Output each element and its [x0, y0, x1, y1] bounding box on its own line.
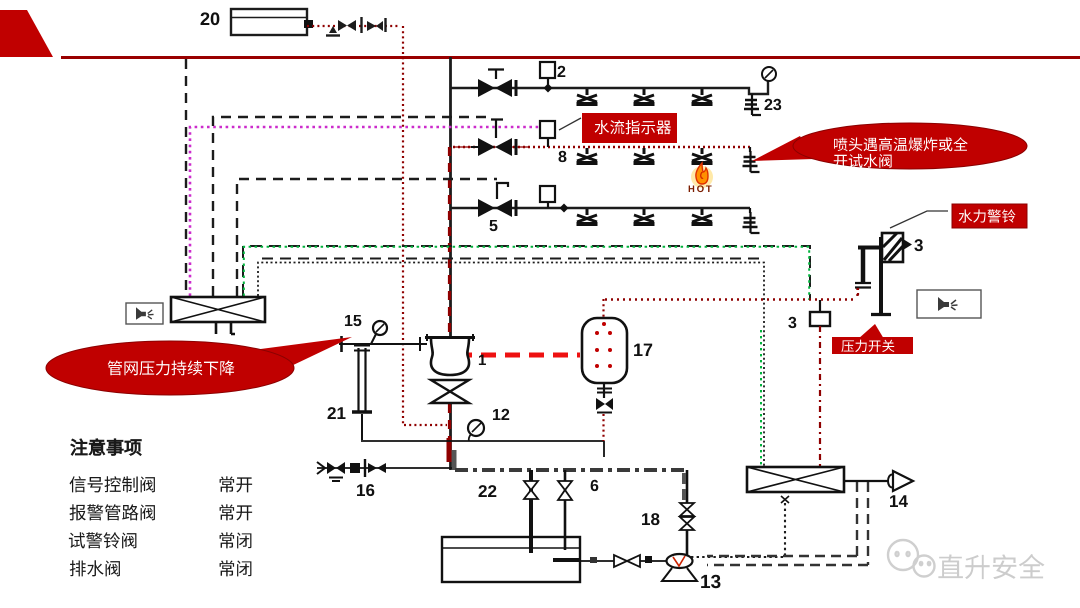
branch pipe row 1: [451, 81, 768, 94]
main drain header: [317, 468, 688, 470]
drain header line: [361, 441, 604, 457]
sprinklers row 3: [577, 209, 713, 224]
branch pipe row 3: [451, 207, 750, 209]
sprinklers row 1: [577, 89, 713, 104]
drain drop pipe 18: [642, 470, 694, 556]
end gauge 23: [762, 67, 776, 81]
check valve on feed: [338, 20, 356, 31]
speaker button right: [917, 290, 981, 318]
double dash drain pipe: [707, 482, 868, 565]
test valve row 3: [743, 208, 760, 233]
note row 4: [70, 560, 86, 576]
pressure switch: [788, 300, 830, 328]
water flow indicator row 3: [540, 186, 569, 213]
wire green dotted overlay: [760, 330, 762, 467]
horn line: [844, 480, 893, 482]
wire red dotted to bell: [605, 288, 858, 300]
watermark text: [938, 554, 963, 578]
callout bubble sprinkler burst: [752, 123, 1027, 169]
drain funnel 13: [662, 554, 720, 588]
gauge 12: [468, 409, 509, 441]
branch pipe row 2: [453, 146, 750, 148]
note row 2: [70, 504, 86, 520]
chamber bottom valve: [596, 383, 613, 441]
top band line: [61, 56, 1080, 59]
leader to bell label: [890, 211, 948, 228]
water motor bell 3: [882, 233, 923, 262]
note row 3: [69, 532, 85, 548]
pipe to alarm valve: [339, 336, 427, 352]
wire tank feed dotted: [307, 26, 447, 425]
label pressure switch: [832, 324, 913, 354]
water tank: [442, 537, 580, 582]
bell pole: [871, 237, 891, 315]
note row 1: [70, 476, 86, 492]
water flow indicator 2: [540, 62, 565, 93]
test valve row 2: [743, 147, 760, 172]
red flow dashes: [457, 353, 580, 358]
chamber top stub: [602, 299, 604, 318]
water flow indicator 8: [540, 121, 566, 162]
tank 20: [201, 9, 307, 35]
controller box: [171, 297, 265, 334]
bell feed pipe: [855, 246, 881, 298]
valve below alarm valve: [431, 380, 469, 403]
drop pipe valve 6: [558, 470, 598, 550]
alarm check valve 1: [425, 334, 486, 375]
signal valve row 2: [471, 120, 516, 157]
alarm output box: [747, 467, 844, 503]
label water flow indicator: [559, 113, 677, 143]
gauge 15: [345, 315, 387, 344]
watermark logo: [888, 540, 935, 577]
tank outlet pipe: [553, 555, 666, 567]
notes title: [71, 439, 88, 455]
retard chamber 17: [582, 318, 652, 383]
drop pipe valve 22: [479, 470, 538, 553]
signal valve row 3: [471, 183, 516, 231]
valve on feed: [367, 18, 386, 32]
signal valve row 1: [471, 70, 516, 98]
air vent: [326, 26, 340, 36]
wire pressure switch down: [819, 326, 821, 467]
flame HOT icon: [689, 163, 713, 192]
wire dashed 2: [213, 117, 492, 296]
callout bubble pressure drop: [46, 337, 352, 395]
wire dashed left: [185, 59, 187, 296]
wire magenta: [190, 127, 541, 296]
riser pipe: [449, 57, 454, 470]
label water alarm bell: [952, 204, 1027, 228]
slide corner ribbon: [0, 10, 53, 57]
wire dashed 3: [237, 179, 497, 296]
test connection valves 16: [317, 459, 386, 496]
sprinklers row 2: [577, 148, 713, 163]
tee on feed: [360, 17, 362, 33]
wire green: [243, 246, 810, 300]
sight glass 21: [328, 346, 372, 441]
test valve row 1: [744, 94, 781, 115]
wire dotted from box2: [690, 503, 785, 557]
horn 14: [888, 471, 913, 507]
tank outlet flange: [304, 20, 313, 28]
wire black dotted: [258, 259, 764, 468]
speaker button left: [126, 303, 163, 324]
